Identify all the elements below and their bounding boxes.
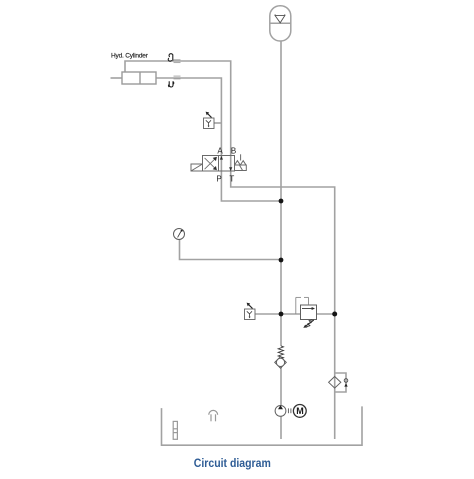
svg-text:A: A (217, 147, 223, 156)
svg-text:Hyd. Cylinder: Hyd. Cylinder (111, 52, 149, 59)
svg-text:M: M (296, 406, 304, 416)
svg-text:P: P (216, 174, 221, 183)
svg-text:T: T (229, 174, 234, 183)
svg-text:B: B (231, 147, 236, 156)
svg-text:Circuit diagram: Circuit diagram (194, 456, 271, 470)
